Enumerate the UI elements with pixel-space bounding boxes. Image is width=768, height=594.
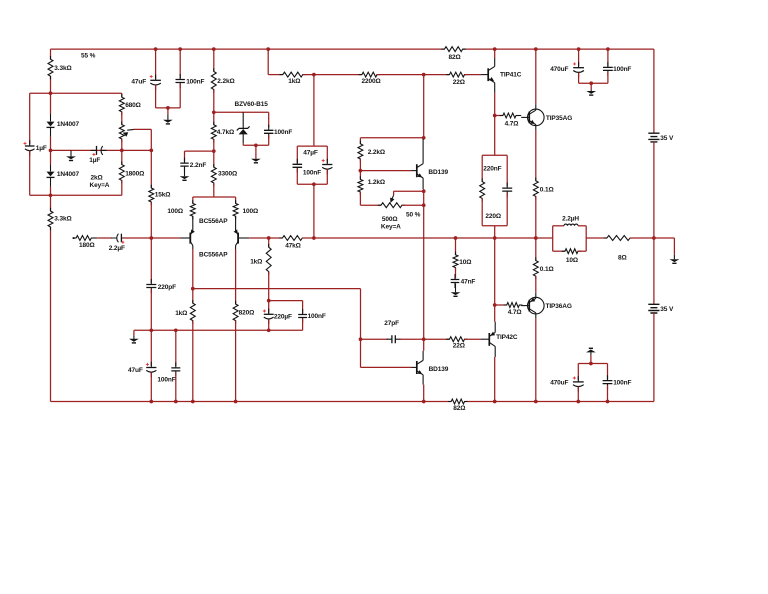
wire lower 4.7ohm branch (495, 304, 507, 306)
node box bottom rail junction (49, 193, 53, 197)
wire 2.2nF branch (185, 150, 214, 152)
svg-text:8Ω: 8Ω (618, 254, 627, 261)
transistor Q3 BC556AP left (192, 216, 194, 231)
svg-text:47uF: 47uF (128, 367, 143, 374)
transistor Q2 BD139 lower (422, 351, 424, 361)
node bias mid junctions (49, 149, 53, 153)
resistor R21 180ohm input (74, 237, 77, 239)
node top right cap junctions (577, 47, 581, 51)
svg-text:100nF: 100nF (303, 170, 321, 177)
svg-text:50 %: 50 % (406, 212, 421, 219)
wire 2.2k top to VAS column (360, 137, 423, 139)
svg-text:4.7kΩ: 4.7kΩ (217, 129, 234, 136)
svg-text:47nF: 47nF (461, 278, 476, 285)
resistor R28 4.7ohm lower (504, 303, 523, 308)
wire main mid (302, 237, 552, 239)
resistor R9 3300ohm (213, 151, 215, 167)
wire feed drop to 47uF box (313, 75, 315, 147)
ground input bias (70, 150, 72, 156)
ground bottom right inverted (589, 348, 593, 349)
resistor R12 22ohm (446, 72, 467, 77)
svg-text:TIP35AG: TIP35AG (546, 115, 572, 122)
svg-text:82Ω: 82Ω (449, 54, 461, 61)
ground 2.2nF (184, 168, 186, 177)
svg-text:470uF: 470uF (550, 66, 568, 73)
wire 27pF branch left (361, 338, 388, 340)
node top rail cap junctions (154, 47, 158, 51)
node zener feed junction (212, 110, 216, 114)
inductor L1 2.2uH (553, 225, 564, 227)
node main 47uF junction (312, 236, 316, 240)
wire top right pair bottom (579, 82, 608, 84)
transistor Q6 TIP35AG (528, 109, 545, 126)
svg-text:0.1Ω: 0.1Ω (540, 266, 554, 273)
resistor R29 0.1ohm lower (533, 257, 538, 279)
svg-text:55 %: 55 % (81, 53, 96, 60)
wire input box top edge (30, 92, 122, 94)
resistor R20 820ohm right emitter (233, 301, 238, 324)
ground output reference (673, 238, 675, 255)
wire 2.2k top corner (359, 138, 361, 144)
wire bottom right box top edge (578, 363, 607, 365)
wire main right-of-pair (249, 237, 282, 239)
wire pot to 1800ohm (121, 139, 123, 165)
node top rail 2.2k junction (212, 47, 216, 51)
wire 2.2k to zener node (213, 90, 215, 113)
wire TIP41C emitter down (494, 93, 496, 156)
wire ground bus (134, 329, 303, 331)
wire top +35V rail (51, 48, 445, 50)
svg-text:100nF: 100nF (274, 129, 292, 136)
resistor R5 1800ohm (119, 161, 124, 183)
node box top rail junction (49, 91, 53, 95)
node 47uF box bottom junction (312, 182, 316, 186)
resistor R7 2.2kohm (213, 49, 215, 71)
svg-text:820Ω: 820Ω (239, 310, 255, 317)
wire 2.2k to base node (359, 159, 361, 171)
node 220uF box top junction (267, 299, 271, 303)
resistor R22 47kohm (279, 236, 305, 241)
ground decoupling top-left (166, 106, 170, 110)
wire input to 2.2uF (97, 237, 112, 239)
node BD139 base junction (359, 169, 363, 173)
svg-text:100nF: 100nF (308, 313, 326, 320)
svg-text:TIP36AG: TIP36AG (546, 303, 572, 310)
svg-text:500Ω: 500Ω (382, 216, 398, 223)
svg-text:1µF: 1µF (36, 145, 47, 152)
wire 22ohm to TIP41C base (465, 74, 482, 76)
wire LR box left edge (552, 226, 554, 251)
battery V1 35V (648, 133, 659, 142)
svg-text:10Ω: 10Ω (459, 259, 471, 266)
svg-text:100nF: 100nF (157, 377, 175, 384)
capacitor C20 470uF neg supply (577, 364, 579, 381)
wire 3300 to pair top (213, 183, 215, 197)
wire 15k column below main (150, 238, 152, 283)
node 2.2nF junction (212, 149, 216, 153)
resistor R31 10ohm LR (553, 250, 565, 252)
svg-text:2kΩ: 2kΩ (91, 175, 103, 182)
svg-text:3300Ω: 3300Ω (218, 171, 237, 178)
capacitor C21 100nF neg supply (607, 364, 609, 380)
resistor R24 1kohm feedback (268, 238, 270, 247)
svg-text:47µF: 47µF (303, 149, 318, 156)
svg-text:27pF: 27pF (384, 320, 399, 327)
svg-text:220Ω: 220Ω (485, 213, 501, 220)
wire BD139 lower base feed (361, 366, 412, 368)
potentiometer R4 wiper arrow (127, 128, 134, 131)
svg-text:35 V: 35 V (660, 306, 674, 313)
svg-text:2.2µF: 2.2µF (109, 245, 125, 252)
node main emitter-column junction (534, 236, 538, 240)
resistor R19 1kohm left emitter (190, 300, 195, 324)
resistor R11 2200ohm (359, 72, 381, 77)
wire 27pF branch right (400, 338, 450, 340)
wire input box left edge upper (29, 93, 31, 144)
wire right emitter to rail (235, 321, 237, 402)
wire wiper to VAS column (394, 190, 424, 192)
svg-text:220pF: 220pF (158, 284, 176, 291)
svg-text:BC556AP: BC556AP (199, 218, 228, 225)
node 47uF-box feed junction (312, 73, 316, 77)
wire feedback horizontal (193, 288, 361, 290)
potentiometer R15 wiper (393, 191, 395, 195)
node VAS 2.2k junction (422, 136, 426, 140)
capacitor C4 47uF polarized (155, 49, 157, 79)
svg-text:47uF: 47uF (131, 78, 146, 85)
capacitor C13 100nF feedback (302, 301, 304, 314)
capacitor C1 1uF polarized (25, 145, 35, 147)
capacitor C16 220nF box (506, 155, 508, 186)
transistor Q1 BD139 upper (422, 139, 424, 164)
svg-text:1.2kΩ: 1.2kΩ (368, 179, 385, 186)
diode D1 1N4007 (50, 114, 52, 121)
wire 0.1ohm lower to TIP36AG (535, 276, 537, 293)
svg-text:BD139: BD139 (429, 366, 449, 373)
transistor Q5 TIP41C (494, 49, 496, 58)
resistor R23 8ohm load (604, 236, 634, 241)
node 27pF left junction (359, 337, 363, 341)
wire right rail upper (653, 49, 655, 133)
svg-text:BZV60-B15: BZV60-B15 (235, 101, 269, 108)
svg-text:BD139: BD139 (428, 169, 448, 176)
node rail BD139 junction (422, 400, 426, 404)
svg-text:470uF: 470uF (550, 380, 568, 387)
node battery mid junction (652, 236, 656, 240)
potentiometer R4 2kohm body (121, 112, 123, 125)
wire 4.7k to 2.2nF node (213, 139, 215, 151)
svg-text:100nF: 100nF (613, 66, 631, 73)
wire left rail (50, 49, 52, 59)
wire right emitter column (235, 249, 237, 304)
resistor R18 100ohm right (235, 197, 237, 203)
wire TIP36AG collector to rail (535, 318, 537, 401)
wire 1800ohm to box bottom (121, 180, 123, 195)
wire main to lower 4.7 tap (494, 238, 496, 322)
wire zener box bottom (243, 144, 269, 146)
capacitor C5 100nF (179, 49, 181, 78)
resistor R10 1kohm driver (280, 72, 306, 77)
wire TIP35AG collector to rail (535, 49, 537, 104)
wire pot wiper to 15k line (134, 128, 152, 130)
svg-text:22Ω: 22Ω (453, 342, 465, 349)
wire 15k column to main (150, 202, 152, 238)
node feedback 1k junction (267, 236, 271, 240)
wire main right (586, 237, 607, 239)
svg-text:1N4007: 1N4007 (57, 171, 80, 178)
wire 47uF box bottom edge (297, 183, 327, 185)
capacitor C19 100nF pos supply (607, 49, 609, 66)
wire 0.1ohm to main (535, 196, 537, 238)
svg-text:1800Ω: 1800Ω (125, 170, 144, 177)
svg-text:2200Ω: 2200Ω (362, 78, 381, 85)
wire TIP42C collector to rail (494, 357, 496, 402)
wire VAS emitter to wiper node (423, 189, 425, 191)
wire VAS to BD139 lower collector (423, 339, 425, 351)
ground zobel (455, 283, 457, 292)
transistor Q8 TIP36AG (528, 297, 545, 314)
svg-text:47kΩ: 47kΩ (285, 242, 301, 249)
ground bus symbol (133, 330, 135, 335)
svg-text:100nF: 100nF (186, 78, 204, 85)
wire VAS column down (423, 191, 425, 339)
svg-text:TIP42C: TIP42C (496, 334, 518, 341)
svg-text:2.2nF: 2.2nF (190, 162, 207, 169)
node input pin (73, 237, 75, 239)
node pot junction (422, 203, 426, 207)
wire feedback drop (360, 289, 362, 368)
svg-text:15kΩ: 15kΩ (155, 192, 171, 199)
node VAS 27pF junction (422, 337, 426, 341)
node lower 4.7ohm tap junction (493, 303, 497, 307)
resistor R27 220ohm box (481, 155, 483, 181)
node VAS collector junction (422, 73, 426, 77)
resistor R30 10ohm zobel (455, 238, 457, 255)
wire pot to VAS column (402, 204, 424, 206)
capacitor C11 2.2uF input (117, 234, 119, 243)
potentiometer R15 500ohm body (378, 203, 405, 208)
wire 220nF box top edge (482, 154, 507, 156)
resistor R16 22ohm lower (446, 337, 467, 342)
capacitor C7 100nF zener (268, 112, 270, 127)
svg-text:100Ω: 100Ω (243, 208, 259, 215)
wire driver wire right (377, 74, 450, 76)
transistor Q4 BC556AP right (235, 216, 237, 231)
wire 2.2uF to pair base (123, 237, 181, 239)
capacitor C17 47nF zobel (455, 268, 457, 279)
resistor R1 3.3kohm upper (48, 56, 53, 79)
svg-text:10Ω: 10Ω (566, 257, 578, 264)
wire 1.2k to pot (359, 192, 361, 205)
resistor 82ohm bottom rail (448, 399, 468, 404)
capacitor C15 100nF neg supply (175, 330, 177, 366)
node top rail feed junction (266, 47, 270, 51)
resistor R2 3.3kohm lower (48, 208, 53, 230)
svg-text:1kΩ: 1kΩ (250, 259, 262, 266)
svg-text:0.1Ω: 0.1Ω (540, 186, 554, 193)
capacitor C9 47uF box right (326, 146, 328, 163)
wire 220pF to ground wire (150, 289, 152, 330)
wire TIP35AG emitter down (535, 130, 537, 180)
svg-text:1kΩ: 1kΩ (288, 78, 300, 85)
zener diode D3 BZV60-B15 (242, 112, 244, 128)
svg-text:4.7Ω: 4.7Ω (505, 120, 519, 127)
wire BD139 base (360, 170, 411, 172)
svg-text:680Ω: 680Ω (125, 102, 141, 109)
svg-text:2.2µH: 2.2µH (562, 215, 579, 222)
wire LR box right edge (585, 226, 587, 251)
capacitor network 220nF box top stub (494, 154, 496, 156)
svg-text:22Ω: 22Ω (453, 79, 465, 86)
wire 47uF box top edge (297, 145, 327, 147)
wire rail drop to driver wire (267, 49, 269, 75)
capacitor C3 220pF (146, 285, 156, 288)
svg-text:2.2kΩ: 2.2kΩ (368, 149, 385, 156)
svg-text:Key=A: Key=A (381, 223, 401, 230)
ground zener (254, 143, 258, 147)
resistor R26 0.1ohm upper (533, 178, 538, 200)
wire bottom -35V rail (51, 401, 452, 403)
wire 220uF box top edge (269, 300, 303, 302)
wire 220nF box bottom edge (482, 225, 507, 227)
capacitor C2 1uF polarized horizontal (96, 146, 98, 155)
wire BD139 lower emitter to rail (423, 385, 425, 402)
wire decoupling pair bottom (155, 85, 157, 108)
node main zobel junction (454, 236, 458, 240)
node 4.7ohm tap junction (493, 114, 497, 118)
wire 4.7ohm branch (495, 115, 503, 117)
capacitor C18 470uF pos supply (578, 49, 580, 66)
svg-text:220nF: 220nF (483, 166, 501, 173)
svg-text:4.7Ω: 4.7Ω (508, 309, 522, 316)
svg-text:Key=A: Key=A (90, 182, 110, 189)
node ground bus junctions (149, 328, 153, 332)
svg-text:3.3kΩ: 3.3kΩ (54, 216, 71, 223)
wire left emitter column (192, 249, 194, 303)
node bottom right top junction (589, 362, 593, 366)
svg-text:1N4007: 1N4007 (57, 121, 80, 128)
svg-text:2.2kΩ: 2.2kΩ (217, 78, 234, 85)
svg-text:1kΩ: 1kΩ (175, 310, 187, 317)
wire box bottom to main (494, 226, 496, 238)
svg-text:180Ω: 180Ω (79, 242, 95, 249)
wire 22ohm to TIP42C base (465, 338, 482, 340)
capacitor C6 2.2nF (180, 163, 188, 166)
svg-text:100nF: 100nF (613, 380, 631, 387)
diode D2 1N4007 (50, 164, 52, 171)
resistor R3 680ohm (121, 93, 123, 97)
wire VAS collector upper (423, 75, 425, 139)
wire right rail lower (653, 313, 655, 402)
resistor 82ohm top rail (441, 47, 466, 52)
svg-text:100Ω: 100Ω (167, 208, 183, 215)
resistor R25 4.7ohm upper (500, 113, 520, 118)
wire TIP36AG emitter up (535, 238, 537, 261)
wire bias mid (51, 149, 152, 151)
capacitor C10 27pF (392, 335, 395, 343)
wire 1k to 220uF box (268, 272, 270, 301)
resistor R14 1.2kohm (359, 171, 361, 180)
svg-text:1µF: 1µF (89, 157, 100, 164)
wire load to ground corner (630, 237, 674, 239)
ground top right (589, 81, 593, 85)
node main tip-column junction (493, 236, 497, 240)
wire 47uF box to main (313, 184, 315, 238)
capacitor C12 220uF (268, 301, 270, 313)
wire zener top (214, 111, 269, 113)
wire left emitter to rail (192, 321, 194, 402)
wire input box bottom edge (30, 194, 122, 196)
battery V2 35V (648, 304, 659, 313)
resistor R6 15kohm (149, 185, 154, 205)
svg-text:220µF: 220µF (274, 314, 292, 321)
svg-text:TIP41C: TIP41C (500, 71, 522, 78)
wire pair top bar (193, 196, 236, 198)
wire driver wire mid (303, 74, 362, 76)
resistor R13 2.2kohm vas (358, 141, 363, 163)
capacitor C8 100nF box left (296, 146, 298, 163)
svg-text:BC556AP: BC556AP (199, 252, 228, 259)
capacitor C14 47uF neg supply (150, 330, 152, 366)
resistor R8 4.7kohm (213, 112, 215, 125)
svg-text:35 V: 35 V (660, 135, 674, 142)
wire input box left edge lower (29, 151, 31, 196)
node main-15k junction (149, 236, 153, 240)
wire right rail middle (653, 142, 655, 304)
wire 15k column upper (150, 150, 152, 188)
transistor Q7 TIP42C (481, 338, 489, 340)
node feedback tap junction (191, 287, 195, 291)
svg-text:82Ω: 82Ω (453, 405, 465, 412)
svg-text:3.3kΩ: 3.3kΩ (54, 65, 71, 72)
node wiper junction (422, 189, 426, 193)
resistor R17 100ohm left (192, 197, 194, 203)
